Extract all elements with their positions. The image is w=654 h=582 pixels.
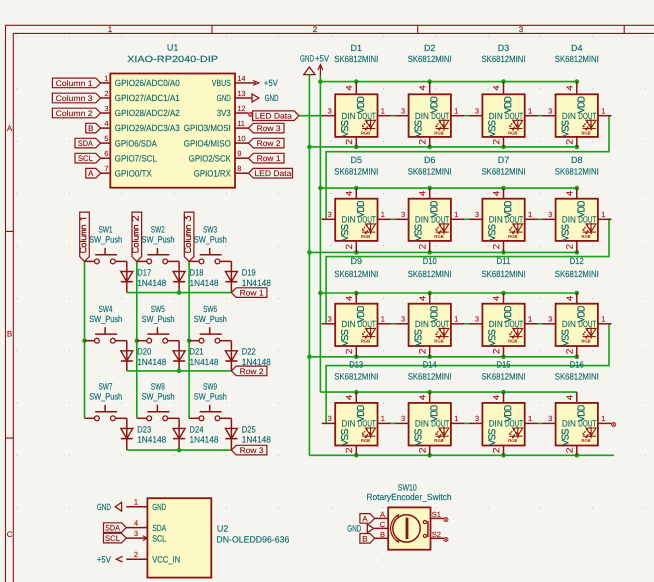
svg-text:3: 3 (475, 414, 479, 423)
svg-text:3: 3 (548, 210, 552, 219)
svg-text:D3: D3 (498, 43, 510, 53)
switch SW4 SW_Push (85, 304, 127, 343)
global label Row 1 (231, 288, 267, 298)
svg-text:RGB: RGB (434, 338, 443, 343)
switch SW3 SW_Push (189, 225, 231, 264)
svg-text:RGB: RGB (581, 438, 590, 443)
U1 pin 3 GPIO28/ADC2/A2 (101, 104, 180, 118)
global label A at SW10 (360, 514, 375, 524)
SW10 knob graphic (391, 514, 428, 542)
svg-text:4: 4 (104, 119, 108, 128)
svg-text:D2: D2 (424, 43, 436, 53)
svg-text:GPIO0/TX: GPIO0/TX (115, 168, 152, 178)
svg-text:SK6812MINI: SK6812MINI (408, 372, 452, 382)
svg-text:SW_Push: SW_Push (194, 391, 227, 401)
svg-text:SK6812MINI: SK6812MINI (334, 372, 378, 382)
svg-text:GPIO1/RX: GPIO1/RX (194, 168, 231, 178)
svg-text:SW_Push: SW_Push (142, 314, 175, 324)
global label SCL (75, 153, 101, 163)
diode D18 1N4148 (173, 261, 218, 292)
wire row 3 (127, 448, 232, 453)
svg-text:RGB: RGB (581, 130, 590, 135)
svg-text:SCL: SCL (78, 154, 94, 163)
global label Column 3 (52, 93, 100, 103)
svg-text:1: 1 (454, 315, 458, 324)
LED D4 SK6812MINI (542, 43, 611, 147)
wire +5V VDD rail row 3 (318, 291, 579, 296)
svg-text:DIN: DIN (342, 215, 356, 225)
svg-text:D23: D23 (137, 424, 151, 434)
svg-text:VBUS: VBUS (212, 78, 231, 88)
svg-text:SW_Push: SW_Push (89, 235, 122, 245)
svg-text:DIN: DIN (415, 215, 429, 225)
svg-text:1N4148: 1N4148 (242, 278, 271, 288)
LED D11 SK6812MINI (469, 256, 538, 357)
svg-text:2: 2 (134, 550, 138, 559)
diode D24 1N4148 (173, 418, 218, 450)
op-amp U1 body XIAO-RP2040-DIP (110, 43, 235, 188)
diode D21 1N4148 (173, 341, 218, 371)
svg-text:SW_Push: SW_Push (89, 314, 122, 324)
LED D3 SK6812MINI (469, 43, 538, 147)
svg-text:SK6812MINI: SK6812MINI (555, 166, 599, 176)
svg-text:D20: D20 (137, 347, 151, 357)
svg-text:RGB: RGB (434, 234, 443, 239)
svg-text:RotaryEncoder_Switch: RotaryEncoder_Switch (367, 492, 452, 502)
diode D17 1N4148 (121, 261, 166, 292)
svg-text:D17: D17 (137, 267, 151, 277)
svg-text:RGB: RGB (434, 130, 443, 135)
svg-text:DOUT: DOUT (505, 111, 523, 121)
svg-text:1: 1 (528, 210, 532, 219)
LED D2 SK6812MINI (395, 43, 464, 147)
switch SW7 SW_Push (85, 382, 127, 421)
wire column 3 vertical (187, 261, 192, 418)
global label Row 2 (249, 138, 285, 148)
diode D25 1N4148 (225, 418, 270, 450)
global label SDA at U2 (104, 523, 127, 533)
global label SCL at U2 (104, 533, 127, 543)
diode D19 1N4148 (225, 261, 270, 292)
svg-text:GND: GND (265, 93, 279, 103)
svg-text:1N4148: 1N4148 (190, 435, 219, 445)
svg-text:SK6812MINI: SK6812MINI (482, 269, 526, 279)
svg-text:DIN: DIN (562, 419, 576, 429)
svg-text:3: 3 (328, 107, 332, 116)
svg-text:5: 5 (104, 134, 108, 143)
svg-text:3: 3 (548, 315, 552, 324)
U1 pin 7 GPIO0/TX (101, 164, 152, 178)
svg-text:SK6812MINI: SK6812MINI (334, 269, 378, 279)
svg-text:2: 2 (313, 25, 318, 34)
LED D12 SK6812MINI (542, 256, 611, 357)
svg-text:SDA: SDA (105, 524, 121, 533)
svg-text:DIN: DIN (489, 319, 503, 329)
global label Row 3 (231, 445, 267, 455)
global label SDA (75, 138, 101, 148)
U1 pin 10 GPIO4/MISO (184, 134, 249, 148)
svg-text:DN-OLEDD96-636: DN-OLEDD96-636 (216, 535, 289, 545)
svg-text:A: A (362, 514, 368, 523)
LED D14 SK6812MINI (395, 360, 464, 456)
wire data link (464, 422, 469, 424)
wire +5V vertical rail (319, 76, 321, 393)
svg-text:3: 3 (548, 107, 552, 116)
svg-text:GPIO3/MOSI: GPIO3/MOSI (184, 123, 231, 133)
svg-text:S1: S1 (432, 510, 441, 519)
diode D22 1N4148 (225, 341, 270, 371)
svg-text:GPIO26/ADC0/A0: GPIO26/ADC0/A0 (115, 78, 180, 88)
svg-text:RGB: RGB (361, 130, 370, 135)
global label Column 2 (52, 108, 100, 118)
svg-text:1: 1 (601, 414, 605, 423)
svg-text:SK6812MINI: SK6812MINI (334, 54, 378, 64)
U1 pin 14 VBUS (212, 74, 249, 88)
svg-text:1: 1 (134, 498, 138, 507)
SW10 pin S2 (431, 530, 449, 542)
U1 pin 5 GPIO6/SDA (101, 134, 157, 148)
U1 pin 6 GPIO7/SCL (101, 149, 157, 163)
svg-text:7: 7 (104, 164, 108, 173)
global label Column 1 (80, 212, 90, 261)
global label LED Data (near U1 pin 12) (253, 111, 299, 121)
wire GND VSS rail row 2 (307, 250, 579, 255)
power symbol +5V (top) (315, 53, 329, 75)
svg-text:GND: GND (97, 502, 111, 512)
svg-text:D13: D13 (349, 360, 363, 370)
wire LED Data to D1 (299, 115, 322, 117)
LED D1 SK6812MINI (322, 43, 391, 147)
svg-text:3: 3 (328, 315, 332, 324)
svg-text:DIN: DIN (562, 319, 576, 329)
wire data link (391, 323, 395, 325)
svg-text:1: 1 (381, 414, 385, 423)
svg-text:RGB: RGB (508, 438, 517, 443)
wire data link (538, 115, 542, 117)
diode D23 1N4148 (121, 418, 166, 450)
wire +5V VDD rail row 2 (318, 186, 579, 191)
wire data link (538, 422, 542, 424)
svg-text:D21: D21 (190, 347, 204, 357)
svg-text:D14: D14 (423, 360, 437, 370)
SW10 pin A (375, 510, 389, 519)
wire +5V VDD rail row 1 (318, 79, 579, 84)
svg-text:1: 1 (528, 107, 532, 116)
svg-text:RGB: RGB (581, 338, 590, 343)
svg-text:GND: GND (300, 53, 314, 63)
global label Column 2 (132, 212, 142, 261)
svg-text:3: 3 (475, 210, 479, 219)
svg-text:SW_Push: SW_Push (142, 391, 175, 401)
svg-text:DIN: DIN (415, 319, 429, 329)
svg-text:3: 3 (401, 107, 405, 116)
svg-text:GPIO2/SCK: GPIO2/SCK (189, 153, 231, 163)
svg-text:GPIO7/SCL: GPIO7/SCL (115, 153, 157, 163)
svg-text:Column 3: Column 3 (56, 94, 94, 103)
svg-text:LED Data: LED Data (254, 169, 292, 178)
switch SW9 SW_Push (189, 382, 231, 421)
svg-text:D8: D8 (571, 155, 583, 165)
global label Column 1 (52, 78, 100, 88)
svg-text:1N4148: 1N4148 (190, 357, 219, 367)
wire row 2 (127, 369, 232, 374)
svg-text:6: 6 (104, 149, 108, 158)
U1 pin 13 GND (217, 89, 249, 103)
svg-text:SW_Push: SW_Push (142, 235, 175, 245)
svg-text:GPIO28/ADC2/A2: GPIO28/ADC2/A2 (115, 108, 180, 118)
svg-text:+5V: +5V (315, 53, 329, 63)
power GND at SW10 pin C (347, 524, 374, 534)
LED D8 SK6812MINI (542, 155, 611, 252)
svg-text:DIN: DIN (489, 215, 503, 225)
svg-text:RGB: RGB (508, 234, 517, 239)
LED D9 SK6812MINI (322, 256, 391, 357)
power +5V at U1 pin 14 (249, 78, 278, 88)
svg-text:D18: D18 (190, 267, 204, 277)
svg-text:SW_Push: SW_Push (89, 391, 122, 401)
svg-text:GPIO29/ADC3/A3: GPIO29/ADC3/A3 (115, 123, 180, 133)
global label Column 3 (184, 212, 194, 261)
svg-text:SK6812MINI: SK6812MINI (408, 166, 452, 176)
svg-text:RGB: RGB (361, 234, 370, 239)
svg-text:SW9: SW9 (203, 382, 217, 392)
LED D16 SK6812MINI (542, 360, 616, 456)
svg-text:1N4148: 1N4148 (137, 357, 166, 367)
svg-text:RGB: RGB (434, 438, 443, 443)
svg-text:GPIO27/ADC1/A1: GPIO27/ADC1/A1 (115, 93, 180, 103)
svg-text:SK6812MINI: SK6812MINI (555, 269, 599, 279)
svg-text:DIN: DIN (489, 111, 503, 121)
svg-text:SW1: SW1 (99, 225, 113, 235)
svg-text:1: 1 (454, 210, 458, 219)
switch SW1 SW_Push (85, 225, 127, 264)
svg-text:14: 14 (237, 74, 245, 83)
svg-text:B: B (380, 530, 385, 539)
svg-text:13: 13 (237, 89, 245, 98)
svg-text:U1: U1 (167, 43, 179, 53)
U2 pin 4 SDA (126, 518, 166, 532)
svg-text:SK6812MINI: SK6812MINI (482, 372, 526, 382)
svg-text:DOUT: DOUT (358, 111, 376, 121)
SW10 pin B (375, 530, 389, 539)
global label Row 1 (249, 153, 285, 163)
svg-text:1: 1 (528, 414, 532, 423)
wire data link (538, 218, 542, 220)
wire data link (464, 323, 469, 325)
LED D5 SK6812MINI (322, 155, 391, 252)
wire data link (391, 422, 395, 424)
svg-text:3: 3 (519, 25, 524, 34)
svg-text:XIAO-RP2040-DIP: XIAO-RP2040-DIP (127, 54, 218, 64)
svg-text:1: 1 (108, 25, 113, 34)
svg-text:SW2: SW2 (151, 225, 165, 235)
svg-text:SW_Push: SW_Push (194, 235, 227, 245)
svg-text:B: B (88, 124, 93, 133)
LED D7 SK6812MINI (469, 155, 538, 252)
svg-text:DIN: DIN (342, 319, 356, 329)
svg-text:Row 2: Row 2 (257, 139, 282, 148)
svg-text:SK6812MINI: SK6812MINI (555, 54, 599, 64)
svg-text:Row 2: Row 2 (240, 367, 265, 376)
svg-text:DIN: DIN (489, 419, 503, 429)
SW10 pin C (375, 520, 389, 529)
svg-text:1: 1 (601, 107, 605, 116)
svg-text:3: 3 (548, 414, 552, 423)
svg-text:GND: GND (347, 524, 361, 534)
svg-text:1: 1 (601, 315, 605, 324)
svg-text:3: 3 (475, 107, 479, 116)
wire data wrap row 1 to row 2 (326, 116, 611, 220)
svg-text:3: 3 (328, 210, 332, 219)
svg-text:GND: GND (217, 93, 231, 103)
svg-text:11: 11 (237, 119, 245, 128)
svg-text:3: 3 (401, 315, 405, 324)
svg-text:1: 1 (454, 414, 458, 423)
switch SW5 SW_Push (137, 304, 179, 343)
U1 pin 4 GPIO29/ADC3/A3 (101, 119, 180, 133)
svg-text:SW3: SW3 (203, 225, 217, 235)
svg-text:1: 1 (381, 315, 385, 324)
svg-text:SK6812MINI: SK6812MINI (482, 54, 526, 64)
LED D6 SK6812MINI (395, 155, 464, 252)
wire data link (464, 218, 469, 220)
svg-text:1: 1 (104, 74, 108, 83)
wire GND VSS rail row 4 (309, 453, 614, 458)
svg-text:DOUT: DOUT (431, 111, 449, 121)
svg-text:SDA: SDA (78, 139, 94, 148)
power GND at U1 pin 13 (249, 93, 279, 103)
svg-text:D6: D6 (424, 155, 436, 165)
IC U2 DN-OLEDD96-636 body (147, 498, 289, 577)
LED D10 SK6812MINI (395, 256, 464, 357)
diode D20 1N4148 (121, 341, 166, 371)
svg-text:SW7: SW7 (99, 382, 113, 392)
svg-text:1: 1 (381, 107, 385, 116)
svg-text:1: 1 (528, 315, 532, 324)
U1 pin 9 GPIO2/SCK (189, 149, 249, 163)
svg-text:RGB: RGB (361, 338, 370, 343)
svg-text:D11: D11 (497, 256, 511, 266)
svg-text:1: 1 (381, 210, 385, 219)
svg-text:3: 3 (475, 315, 479, 324)
svg-text:1N4148: 1N4148 (137, 435, 166, 445)
svg-text:Row 1: Row 1 (240, 289, 265, 298)
svg-text:DIN: DIN (562, 215, 576, 225)
switch SW2 SW_Push (137, 225, 179, 264)
svg-text:SW8: SW8 (151, 382, 165, 392)
svg-text:D22: D22 (242, 347, 256, 357)
wire data link (464, 115, 469, 117)
global label B (86, 123, 101, 133)
power symbol GND (top) (300, 53, 315, 74)
svg-text:A: A (88, 169, 94, 178)
svg-text:3V3: 3V3 (217, 108, 231, 118)
svg-text:RGB: RGB (508, 338, 517, 343)
svg-text:4: 4 (134, 518, 138, 527)
svg-text:LED Data: LED Data (255, 112, 293, 121)
U1 pin 8 GPIO1/RX (194, 164, 249, 178)
svg-text:A: A (380, 510, 385, 519)
svg-text:+5V: +5V (264, 78, 278, 88)
U1 pin 2 GPIO27/ADC1/A1 (101, 89, 180, 103)
SW10 pin S1 (431, 510, 449, 522)
svg-text:1N4148: 1N4148 (242, 435, 271, 445)
svg-text:D9: D9 (351, 256, 363, 266)
svg-text:Row 3: Row 3 (240, 446, 265, 455)
LED D13 SK6812MINI (322, 360, 391, 456)
svg-text:DIN: DIN (415, 419, 429, 429)
global label LED Data at U1 pin 8 (249, 168, 293, 178)
wire data link (538, 323, 542, 325)
wire GND VSS rail row 1 (307, 145, 579, 150)
svg-text:Row 3: Row 3 (257, 124, 282, 133)
svg-text:Column 1: Column 1 (56, 79, 94, 88)
svg-text:D5: D5 (351, 155, 363, 165)
svg-text:D19: D19 (242, 267, 256, 277)
global label A (86, 168, 101, 178)
svg-text:Row 1: Row 1 (257, 154, 282, 163)
svg-text:RGB: RGB (508, 130, 517, 135)
global label Row 2 (231, 366, 267, 376)
U2 pin 2 VCC_IN (126, 550, 180, 564)
svg-text:DOUT: DOUT (578, 111, 596, 121)
svg-text:DIN: DIN (415, 111, 429, 121)
svg-text:GND: GND (152, 502, 166, 512)
svg-text:3: 3 (104, 104, 108, 113)
svg-text:SK6812MINI: SK6812MINI (555, 372, 599, 382)
svg-text:C: C (380, 520, 386, 529)
U1 pin 11 GPIO3/MOSI (184, 119, 249, 133)
U2 pin 1 GND (126, 498, 166, 512)
switch SW6 SW_Push (189, 304, 231, 343)
wire data wrap row 3 to row 4 (326, 324, 611, 424)
svg-text:GPIO4/MISO: GPIO4/MISO (184, 138, 231, 148)
svg-text:1N4148: 1N4148 (190, 278, 219, 288)
svg-text:SW_Push: SW_Push (194, 314, 227, 324)
svg-text:RGB: RGB (581, 234, 590, 239)
rotary encoder SW10 body (367, 482, 452, 549)
svg-text:3: 3 (134, 529, 138, 538)
svg-text:D24: D24 (190, 424, 204, 434)
wire column 2 vertical (135, 261, 140, 418)
svg-text:DIN: DIN (342, 419, 356, 429)
svg-text:1: 1 (601, 210, 605, 219)
svg-text:SK6812MINI: SK6812MINI (408, 269, 452, 279)
svg-text:12: 12 (237, 104, 245, 113)
svg-text:2: 2 (104, 89, 108, 98)
svg-text:1: 1 (454, 107, 458, 116)
svg-text:C: C (7, 530, 13, 539)
power +5V at U2 pin 2 (97, 554, 123, 564)
wire row 1 (127, 290, 232, 295)
svg-text:B: B (362, 534, 367, 543)
wire +5V VDD rail row 4 (320, 390, 576, 395)
svg-text:D12: D12 (570, 256, 584, 266)
svg-text:D1: D1 (351, 43, 363, 53)
LED D15 SK6812MINI (469, 360, 538, 456)
svg-text:SK6812MINI: SK6812MINI (482, 166, 526, 176)
wire data link (391, 218, 395, 220)
svg-text:+5V: +5V (97, 554, 111, 564)
svg-text:SK6812MINI: SK6812MINI (334, 166, 378, 176)
svg-text:8: 8 (237, 164, 241, 173)
svg-text:9: 9 (237, 149, 241, 158)
wire GND VSS rail row 3 (307, 355, 579, 360)
svg-text:3: 3 (401, 210, 405, 219)
svg-text:S2: S2 (432, 530, 441, 539)
svg-text:Column 2: Column 2 (56, 109, 94, 118)
svg-text:DIN: DIN (342, 111, 356, 121)
